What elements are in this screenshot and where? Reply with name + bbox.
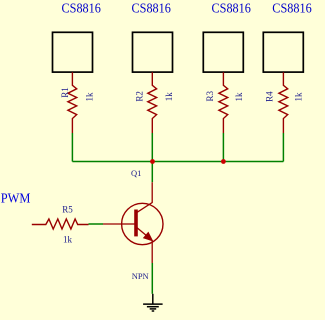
IC box U1	[53, 32, 93, 72]
svg-text:Q1: Q1	[131, 168, 141, 178]
resistor R2	[148, 72, 157, 133]
svg-text:R5: R5	[62, 204, 73, 214]
resistor R3	[219, 72, 228, 133]
resistor R1	[68, 72, 77, 133]
IC box U4	[263, 32, 303, 72]
wire R3 to bus	[222, 133, 224, 162]
wire R1 to bus	[71, 133, 73, 162]
IC box U3	[203, 32, 243, 72]
svg-text:1k: 1k	[164, 92, 174, 102]
svg-text:R2: R2	[135, 91, 145, 102]
ground	[143, 294, 163, 311]
svg-text:1k: 1k	[85, 92, 95, 102]
svg-text:CS8816: CS8816	[132, 1, 172, 16]
base pin wire (red) from R5 to Q1	[103, 223, 122, 225]
resistor R5	[32, 219, 89, 229]
transistor Q1	[122, 182, 164, 263]
junction at R2/Q1 node	[150, 159, 155, 164]
wire Q1 emitter to ground (green)	[151, 263, 153, 294]
svg-text:R1: R1	[60, 87, 70, 98]
svg-text:R3: R3	[205, 90, 215, 101]
svg-text:1k: 1k	[234, 92, 244, 102]
svg-text:NPN: NPN	[132, 271, 149, 281]
junction at R3 node	[221, 159, 226, 164]
svg-text:CS8816: CS8816	[272, 1, 312, 16]
IC box U2	[133, 32, 173, 72]
svg-text:1k: 1k	[294, 92, 304, 102]
svg-text:CS8816: CS8816	[212, 1, 252, 16]
wire R2 to bus	[151, 133, 153, 162]
resistor R4	[279, 72, 288, 133]
svg-text:CS8816: CS8816	[62, 1, 102, 16]
wire R5 to Q1 base (green)	[89, 223, 104, 225]
wire R4 to bus	[282, 133, 284, 162]
svg-text:R4: R4	[265, 91, 275, 102]
wire bus to Q1 collector	[151, 162, 153, 183]
svg-text:1k: 1k	[63, 235, 73, 245]
svg-text:PWM: PWM	[1, 192, 31, 207]
wire horizontal bus	[72, 161, 283, 163]
